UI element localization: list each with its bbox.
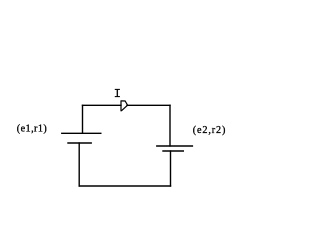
battery cell B1 (e1,r1) negative plate <box>68 142 91 144</box>
svg-text:I: I <box>114 87 121 101</box>
wire left lower <box>78 143 80 186</box>
battery cell B1 (e1,r1) positive plate <box>62 132 101 134</box>
wire right lower <box>170 151 172 186</box>
current direction arrowhead on top wire <box>121 101 128 111</box>
wire bottom <box>79 185 170 187</box>
wire right upper <box>169 105 171 146</box>
wire top-right segment <box>127 104 170 106</box>
wire top-left segment <box>83 104 122 106</box>
svg-text:(e2,r2): (e2,r2) <box>193 125 226 136</box>
battery cell B2 (e2,r2) negative plate <box>163 150 183 152</box>
wire left upper <box>82 105 84 133</box>
svg-text:(e1,r1): (e1,r1) <box>17 124 47 135</box>
battery cell B2 (e2,r2) positive plate <box>157 145 193 147</box>
